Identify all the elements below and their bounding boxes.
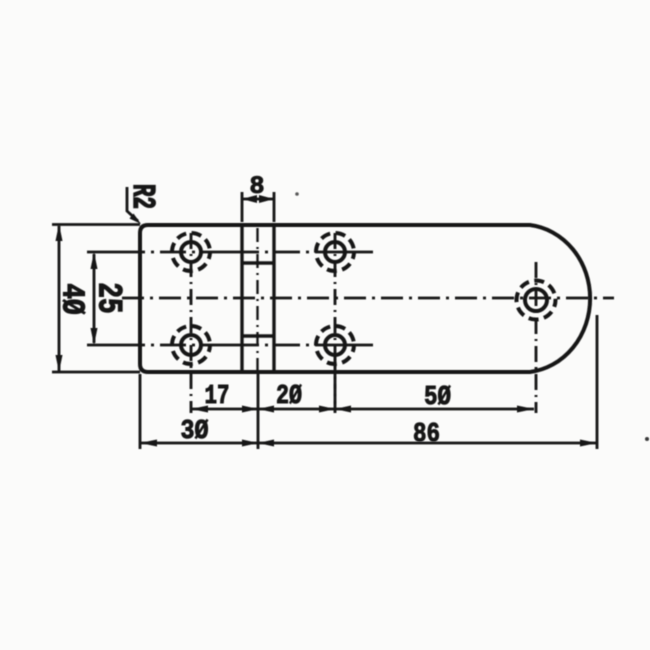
- main horizontal centerline: [122, 297, 614, 300]
- knuckle joint line upper: [242, 261, 274, 265]
- hole top-left: [181, 242, 201, 262]
- svg-text:25: 25: [88, 282, 126, 313]
- svg-text:5Ø: 5Ø: [424, 383, 451, 413]
- dim 40 arrow up: [56, 224, 63, 241]
- svg-text:86: 86: [413, 420, 440, 450]
- label R2: [123, 184, 158, 209]
- label 25: [88, 282, 126, 313]
- hinge plate outline: [140, 225, 590, 372]
- svg-text:3Ø: 3Ø: [181, 417, 209, 447]
- scan speck near barrel top: [295, 192, 299, 196]
- dim 8 extension right: [273, 192, 276, 222]
- hole bottom-left: [181, 335, 201, 355]
- dim 25 arrow down: [91, 328, 98, 345]
- dim 8 arrow right: [259, 195, 274, 203]
- countersink bottom-mid: [316, 326, 354, 364]
- dim 40 extension top: [52, 223, 140, 226]
- bottom row1 dim line 17-20-50: [191, 408, 534, 411]
- dim 8 extension left: [241, 192, 244, 222]
- ext line plate left edge below: [139, 374, 142, 449]
- ext line mid column below: [334, 352, 337, 414]
- countersink top-mid: [316, 233, 354, 271]
- row1 bowtie arrows at hinge center: [242, 406, 274, 413]
- svg-text:2Ø: 2Ø: [276, 382, 302, 412]
- row1 arrow at 17 left: [191, 406, 208, 413]
- svg-text:8: 8: [249, 172, 264, 201]
- hole top-mid: [325, 242, 345, 262]
- svg-text:17: 17: [205, 382, 230, 412]
- label 40: [54, 283, 90, 314]
- row1 arrow at 50 right: [517, 406, 534, 413]
- row2 arrow at 86 right: [580, 440, 597, 447]
- right hole column centerline: [535, 262, 538, 413]
- ext line plate right edge below: [596, 315, 599, 449]
- dim 8 line: [242, 198, 274, 201]
- dim 40 arrow down: [56, 355, 63, 372]
- mid hole column centerline: [334, 233, 337, 413]
- dim 40 extension bottom: [52, 371, 140, 374]
- ext line hinge center below plate: [257, 374, 260, 449]
- scan speck bottom right: [645, 437, 649, 441]
- row2 arrow at 30 left: [140, 440, 157, 447]
- row2 bowtie arrows at hinge center: [242, 440, 274, 447]
- dim 40 line: [58, 226, 61, 371]
- upper hole row centerline: [87, 251, 377, 254]
- R2 leader arrowhead: [130, 214, 142, 225]
- dim 25 line: [93, 254, 96, 343]
- hinge barrel right edge: [272, 225, 275, 372]
- left hole column centerline: [190, 233, 193, 413]
- hole right: [525, 289, 547, 311]
- countersink bottom-left: [172, 326, 210, 364]
- row1 bowtie arrows at mid column: [319, 406, 351, 413]
- svg-text:R2: R2: [123, 184, 158, 209]
- knuckle joint line lower: [242, 334, 274, 338]
- hinge barrel left edge: [240, 225, 243, 372]
- svg-text:4Ø: 4Ø: [54, 283, 90, 314]
- hole bottom-mid: [325, 335, 345, 355]
- countersink top-left: [172, 233, 210, 271]
- dim 8 arrow left: [242, 195, 257, 203]
- lower hole row centerline: [87, 344, 377, 347]
- R2 leader line: [127, 187, 138, 221]
- hinge pin centerline: [256, 228, 258, 371]
- dim 25 arrow up: [91, 252, 98, 269]
- countersink right: [517, 281, 556, 320]
- bottom row2 dim line 30-86: [141, 442, 596, 445]
